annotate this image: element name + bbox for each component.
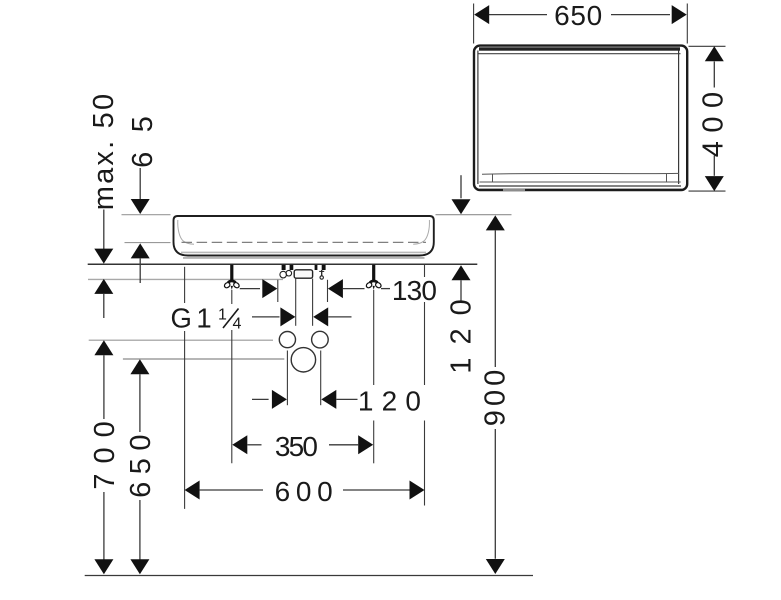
svg-text:900: 900 [480,366,512,426]
svg-text:650: 650 [125,427,157,498]
svg-text:4: 4 [233,315,242,332]
svg-text:G 1: G 1 [171,303,211,334]
svg-text:65: 65 [127,97,159,168]
svg-text:600: 600 [275,476,339,507]
svg-text:400: 400 [698,83,730,157]
svg-text:650: 650 [554,0,603,31]
svg-text:700: 700 [89,411,121,489]
svg-text:1: 1 [218,307,227,324]
svg-text:max. 50: max. 50 [88,92,120,211]
svg-text:120: 120 [358,386,429,417]
svg-text:120: 120 [445,286,477,373]
svg-text:350: 350 [275,431,318,462]
svg-text:130: 130 [392,275,437,306]
